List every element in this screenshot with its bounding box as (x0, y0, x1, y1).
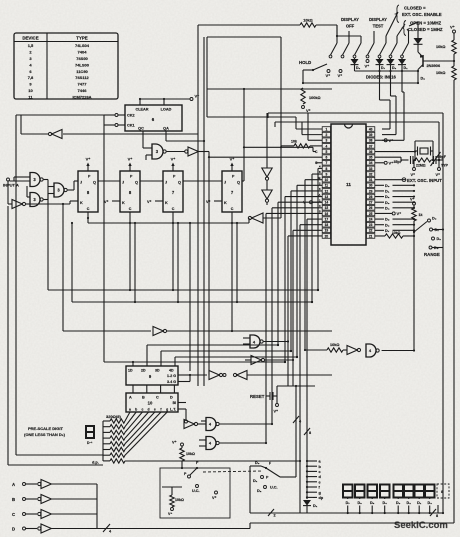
svg-text:39pF: 39pF (438, 155, 447, 159)
svg-text:V⁺: V⁺ (436, 173, 441, 177)
inverter U2b down (262, 190, 272, 199)
segment bus a-dp (306, 455, 308, 499)
wire top rail upper (198, 24, 300, 26)
svg-text:74S00: 74S00 (76, 56, 88, 61)
diode osc (414, 38, 423, 44)
terminal INPUT A (7, 178, 10, 181)
svg-text:3: 3 (326, 139, 328, 143)
wire inv5f wires (245, 359, 251, 361)
diode D&#8320; switch (354, 58, 356, 59)
svg-text:D⁻¹: D⁻¹ (87, 441, 93, 445)
inverter U5f mid-left (251, 356, 261, 365)
wire corner x275 (274, 122, 276, 127)
wire ff2 stems (129, 218, 131, 290)
nand gate U4c (206, 437, 216, 450)
svg-text:QA: QA (163, 127, 169, 131)
wire pin35 to cap rail (375, 156, 401, 158)
wire left col bottom (16, 454, 103, 456)
svg-text:18: 18 (325, 223, 329, 227)
V+ terminal mid diode row (366, 60, 369, 63)
wire nand3c out to FF1 J (68, 189, 74, 191)
wire ff3 stems (172, 218, 174, 290)
svg-text:V⁺: V⁺ (338, 73, 343, 78)
svg-text:V⁺: V⁺ (411, 173, 416, 177)
svg-text:10: 10 (148, 401, 153, 406)
brace mhz (403, 21, 407, 36)
svg-text:10: 10 (28, 88, 33, 93)
resistor 22M (415, 158, 431, 162)
svg-text:OFF: OFF (346, 24, 355, 29)
nand gate U4a mid (366, 344, 376, 357)
svg-text:30: 30 (369, 184, 373, 188)
svg-text:C: C (172, 207, 175, 211)
inverter U1c left (52, 130, 62, 139)
svg-text:F: F (269, 462, 271, 466)
svg-text:320Ω(8): 320Ω(8) (106, 414, 121, 419)
svg-text:5: 5 (326, 150, 328, 154)
wire latch to decoder (132, 385, 134, 393)
wire vert x198 (197, 25, 199, 386)
svg-text:V⁺: V⁺ (365, 64, 370, 69)
wire rail to right (438, 512, 443, 514)
flip-flop U8b (120, 171, 140, 212)
V+ terminal pin14 area (310, 201, 313, 204)
svg-text:K: K (224, 201, 227, 205)
svg-text:K: K (165, 201, 168, 205)
svg-text:39: 39 (369, 133, 373, 137)
wire pin6 feed (209, 156, 322, 158)
V+ terminal pin34 (375, 162, 384, 164)
svg-text:1-2 G: 1-2 G (167, 374, 176, 378)
svg-text:D₁: D₁ (404, 66, 409, 70)
wire FF2 Q to FF3 J (140, 180, 163, 182)
svg-text:TYP: TYP (441, 164, 449, 168)
resistor 10k pin4 (281, 145, 294, 147)
resistor 1k range (413, 205, 415, 208)
resistor 10k top (300, 23, 316, 27)
wire QA down (165, 131, 167, 141)
svg-text:25: 25 (369, 212, 373, 216)
svg-text:CK1: CK1 (127, 124, 135, 128)
svg-text:V⁺: V⁺ (389, 138, 394, 143)
svg-text:V⁺: V⁺ (206, 200, 211, 204)
svg-text:RANGE: RANGE (424, 252, 440, 257)
inverter U5a left-facing under FF4 (252, 213, 264, 223)
svg-text:13: 13 (325, 195, 329, 199)
wire CK1 stub (118, 124, 125, 126)
inverter U5c (347, 346, 357, 355)
svg-text:D₁: D₁ (253, 479, 258, 483)
svg-text:V⁺: V⁺ (171, 157, 176, 162)
display extra dashed (437, 484, 449, 498)
svg-text:V⁺: V⁺ (212, 496, 217, 500)
svg-text:ICM7226A: ICM7226A (72, 94, 91, 99)
svg-text:10kΩ: 10kΩ (436, 45, 445, 49)
svg-text:D₀: D₀ (432, 217, 437, 221)
wire FF4 Q up (242, 180, 244, 182)
svg-text:Q: Q (237, 181, 240, 185)
svg-text:D₂: D₂ (385, 195, 390, 199)
wire nand3d inputs (146, 147, 152, 149)
svg-text:D₂: D₂ (407, 501, 412, 505)
svg-text:B: B (142, 396, 145, 400)
svg-text:8: 8 (309, 431, 311, 435)
wire nand3b out (44, 199, 48, 201)
V+ terminal 39pF (438, 160, 440, 168)
svg-text:7477: 7477 (78, 82, 88, 87)
svg-text:D₀: D₀ (356, 66, 361, 70)
svg-text:37: 37 (369, 144, 373, 148)
svg-text:B: B (318, 176, 320, 180)
switch S6 (396, 36, 398, 43)
svg-text:J: J (122, 181, 124, 185)
svg-text:EXT. OSC. INPUT: EXT. OSC. INPUT (407, 178, 442, 183)
inverter U5d latch enable (209, 371, 219, 380)
wire r to node (453, 54, 455, 66)
svg-text:J: J (224, 181, 226, 185)
svg-text:g: g (166, 408, 168, 412)
reset switch (266, 395, 270, 397)
switch S5 (385, 36, 387, 43)
wire FF1 Q to FF2 J (98, 180, 120, 182)
svg-text:TEST: TEST (373, 24, 384, 29)
svg-text:RESET: RESET (250, 394, 265, 399)
wire vert x72-302 (71, 223, 73, 302)
svg-text:9: 9 (326, 172, 328, 176)
switch S2 (348, 31, 350, 43)
svg-text:35pF: 35pF (394, 160, 403, 164)
svg-text:Q: Q (93, 181, 96, 185)
svg-text:CLOSED =: CLOSED = (404, 6, 426, 11)
svg-text:10kΩ: 10kΩ (436, 71, 445, 75)
svg-text:33: 33 (369, 167, 373, 171)
inverter U1a input (12, 200, 22, 209)
svg-text:19: 19 (325, 229, 329, 233)
pre-scale 7seg icon (86, 426, 94, 438)
wire latch G stubs (178, 374, 190, 376)
svg-text:7446: 7446 (78, 88, 88, 93)
svg-text:1: 1 (326, 127, 328, 131)
svg-text:(ONE LESS THAN D₀): (ONE LESS THAN D₀) (24, 432, 66, 437)
switch S7 (408, 36, 410, 43)
wire vert x48-290 (47, 187, 49, 291)
wire pin3 feed (308, 139, 322, 141)
svg-text:8: 8 (326, 167, 328, 171)
svg-text:6: 6 (326, 156, 328, 160)
wire V+ rail above prescaler (139, 99, 141, 105)
wire inv to nand3b (8, 203, 12, 205)
V+ terminal below 100k (302, 106, 305, 109)
wire D2 node drop (417, 71, 419, 83)
svg-text:40: 40 (369, 127, 373, 131)
wire brace2 to switches (397, 24, 405, 36)
svg-text:2: 2 (326, 133, 328, 137)
wire FF1 K (70, 200, 78, 202)
reset cap to v+ (276, 396, 278, 403)
svg-text:C: C (129, 207, 132, 211)
svg-text:d.p.: d.p. (92, 461, 99, 465)
wire vert x244 from y89 (243, 89, 245, 181)
wire top rail upper cont (316, 24, 337, 26)
svg-text:D₀: D₀ (255, 461, 260, 465)
svg-text:D: D (170, 396, 173, 400)
svg-text:20: 20 (325, 234, 329, 238)
svg-text:D₄: D₄ (382, 501, 387, 505)
svg-text:V⁺: V⁺ (86, 157, 91, 162)
resistor 10k f-switch (181, 443, 184, 446)
svg-text:Q: Q (178, 181, 181, 185)
switch HOLD (313, 64, 327, 70)
wire inv5a feed (263, 217, 281, 219)
svg-text:V⁺: V⁺ (410, 198, 415, 202)
svg-text:26: 26 (369, 206, 373, 210)
svg-text:L.T.: L.T. (170, 408, 176, 412)
wire nand3a out (44, 179, 48, 181)
svg-text:dp: dp (319, 496, 324, 500)
svg-text:8: 8 (441, 490, 443, 494)
svg-text:DIODES: IN916: DIODES: IN916 (366, 75, 396, 80)
svg-text:10k: 10k (291, 140, 297, 144)
wire blade out (280, 476, 296, 478)
contact UC (264, 486, 267, 489)
svg-text:21: 21 (369, 234, 373, 238)
svg-text:D₇: D₇ (346, 501, 351, 505)
wire brace1 to switch (386, 12, 398, 36)
resistor 10k lower (452, 66, 456, 80)
resistor 10k range (385, 234, 403, 238)
wire nand4b out (220, 423, 272, 425)
wire reset up (276, 386, 278, 396)
wire input a to gates (10, 180, 31, 182)
wire inv col top (266, 113, 268, 131)
wire array left bus (102, 421, 104, 461)
svg-text:D₃: D₃ (385, 201, 390, 205)
svg-text:D₆: D₆ (358, 501, 363, 505)
svg-text:4: 4 (326, 144, 328, 148)
wire top loop B (302, 121, 439, 123)
svg-text:11: 11 (325, 184, 329, 188)
wire latch feeds (103, 125, 105, 362)
inverter U2a down (262, 168, 272, 177)
svg-text:PRE-SCALE DIGIT: PRE-SCALE DIGIT (28, 426, 63, 431)
svg-text:TYPE: TYPE (76, 36, 88, 41)
svg-text:11C90: 11C90 (76, 69, 88, 74)
wire under-ff rail (87, 218, 89, 223)
svg-text:74LS00: 74LS00 (75, 62, 90, 67)
decoder U10 7446 (126, 393, 178, 412)
svg-text:3-4 G: 3-4 G (167, 380, 176, 384)
terminal UC left (196, 485, 199, 488)
wire D1 col down (401, 71, 403, 92)
svg-text:28: 28 (369, 195, 373, 199)
resistor 100k hold pulldown (301, 88, 305, 104)
wire ff1 c stem (87, 217, 89, 219)
wire dp feed (125, 460, 300, 462)
svg-text:35: 35 (369, 156, 373, 160)
switch S4 (373, 31, 375, 43)
svg-text:Q: Q (135, 181, 138, 185)
latch U9 7477 (126, 366, 178, 385)
flip-flop U8a (78, 171, 98, 212)
svg-text:D₆: D₆ (385, 223, 390, 227)
inverter U1b (188, 147, 198, 156)
nand gate U3a (30, 173, 40, 187)
wire ff4 stems (231, 218, 233, 331)
wire y134 left (21, 133, 49, 135)
nand gate U4d mid-left (250, 335, 260, 348)
svg-text:V⁺: V⁺ (104, 200, 109, 204)
svg-text:D₇: D₇ (385, 229, 390, 233)
prescaler U6 11C90 (125, 105, 182, 131)
svg-text:SeekIC.com: SeekIC.com (394, 520, 448, 531)
wire nand4d out (264, 341, 288, 343)
parts table (device/type list) (14, 33, 118, 99)
svg-text:A: A (129, 396, 132, 400)
nand gate U4b (206, 418, 216, 431)
wire vert x16 (15, 115, 17, 455)
contact P (261, 476, 264, 479)
wire D0 col down (390, 71, 392, 96)
svg-text:D₂: D₂ (421, 77, 426, 81)
svg-text:10kΩ: 10kΩ (392, 231, 401, 235)
svg-text:C: C (87, 207, 90, 211)
svg-text:D₁: D₁ (385, 190, 390, 194)
wire inv5e to nand4b (197, 423, 206, 425)
svg-text:7404: 7404 (78, 50, 88, 55)
svg-text:C: C (156, 396, 159, 400)
svg-text:32: 32 (369, 172, 373, 176)
svg-text:10kΩ: 10kΩ (186, 452, 195, 456)
wire CK2 stub (118, 114, 125, 116)
wire long horiz y89 (207, 88, 332, 90)
wire y331 inverter feed (62, 204, 64, 331)
svg-text:2D: 2D (141, 369, 146, 373)
wire y115 horiz (16, 114, 104, 116)
svg-text:D₄: D₄ (385, 206, 390, 210)
svg-text:7: 7 (326, 161, 328, 165)
svg-text:12: 12 (325, 189, 329, 193)
resistor 10k lower box (170, 495, 174, 507)
svg-text:V⁺: V⁺ (397, 211, 402, 216)
wire corner x268 (267, 113, 269, 118)
resistor array 320 ohm x8 (103, 420, 110, 422)
wire D7 col down (379, 71, 381, 100)
svg-text:V⁺: V⁺ (128, 157, 133, 162)
V+ terminal transistor divider (453, 30, 456, 33)
svg-text:D₅: D₅ (370, 501, 375, 505)
switch RANGE blade (413, 221, 415, 236)
wire y331 right (166, 330, 332, 332)
svg-text:c: c (319, 470, 321, 474)
resistor 10k mid (327, 348, 343, 352)
range contacts (428, 219, 431, 222)
svg-text:1k: 1k (419, 213, 423, 217)
svg-text:14: 14 (325, 201, 329, 205)
svg-text:B: B (12, 497, 15, 502)
svg-text:a: a (129, 408, 131, 412)
svg-text:D₂: D₂ (257, 489, 262, 493)
IC U11 ICM7226A with pin boxes (331, 124, 366, 245)
V+ terminal 35pF (413, 160, 415, 168)
box around f switch (160, 468, 230, 518)
ext osc input terminal (402, 178, 406, 182)
inverter U5e (184, 420, 194, 429)
wire BI LT stubs (178, 402, 186, 404)
crystal Y1 (415, 140, 433, 142)
svg-text:D₁: D₁ (417, 501, 422, 505)
svg-text:7,8: 7,8 (28, 75, 34, 80)
switch S3 (360, 36, 362, 43)
wire cluster bracket (250, 465, 261, 467)
svg-text:10kΩ: 10kΩ (330, 343, 339, 347)
flip-flop U7a (163, 171, 183, 212)
wire pin2 feed (302, 134, 322, 136)
wire pin1 feed (296, 128, 322, 130)
wire range links (433, 229, 444, 231)
V+ terminal range (413, 202, 416, 205)
wire vert x281 (280, 37, 282, 218)
wire input join (96, 484, 98, 529)
wire osc switch rail (417, 22, 419, 38)
svg-text:CLOSED = 1MHZ: CLOSED = 1MHZ (408, 27, 443, 32)
wire y134 right (63, 133, 198, 135)
wire pin21 to 10k (375, 235, 385, 237)
wire inv2 col (266, 131, 268, 168)
nand gate U3d (152, 144, 163, 159)
wire v+ to r (453, 33, 455, 40)
svg-text:D: D (12, 527, 15, 532)
svg-text:74LS04: 74LS04 (75, 43, 90, 48)
svg-text:EXT. OSC. ENABLE: EXT. OSC. ENABLE (402, 12, 442, 17)
svg-text:D₂: D₂ (437, 237, 442, 241)
V+ terminal pin25 (375, 212, 392, 214)
svg-text:V⁺: V⁺ (306, 108, 311, 113)
wire nand3d to inv (167, 151, 185, 153)
bus slash 8 display (430, 509, 436, 516)
wire dashed link (203, 471, 262, 472)
svg-text:QC: QC (138, 127, 144, 131)
resistor 10k upper (452, 40, 456, 54)
transistor Q1 2N3906 (418, 52, 423, 57)
wire pin17-20 vertical buses (306, 245, 308, 455)
wire vert x204 (203, 37, 205, 386)
wire pin17-20 drops (307, 218, 322, 220)
wire nand4d inputs (243, 337, 250, 339)
svg-text:BI: BI (173, 401, 176, 405)
nand gate U3c (54, 183, 64, 197)
svg-text:27: 27 (369, 201, 373, 205)
svg-text:100kΩ: 100kΩ (309, 96, 321, 100)
svg-text:2N3906: 2N3906 (427, 63, 441, 68)
svg-text:34: 34 (369, 161, 373, 165)
wire QC down (142, 131, 144, 148)
svg-text:e: e (154, 408, 156, 412)
svg-text:C: C (12, 512, 15, 517)
inverter U1d left-facing (237, 371, 247, 380)
svg-text:1D: 1D (128, 369, 133, 373)
wire hold node rail (302, 82, 304, 84)
svg-text:V⁺: V⁺ (168, 512, 172, 516)
svg-text:17: 17 (325, 217, 329, 221)
diode D&#8320; switch (390, 58, 392, 59)
svg-text:D₇: D₇ (381, 66, 386, 70)
svg-text:HOLD: HOLD (299, 60, 311, 65)
wires digit-select pins with labels (375, 184, 384, 186)
wire left col bottom 2 (7, 206, 9, 465)
wire nand4a out (382, 350, 414, 352)
flip-flop U7b (222, 171, 242, 212)
svg-text:V⁺: V⁺ (450, 25, 455, 30)
